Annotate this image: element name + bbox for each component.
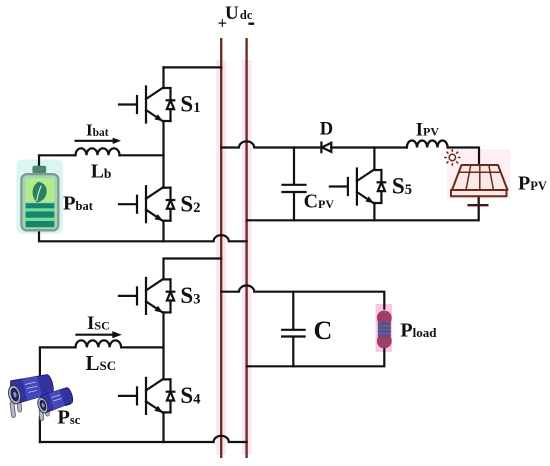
svg-text:+: + — [218, 14, 227, 33]
current arrow Ibat — [76, 140, 115, 142]
wire: load bottom rail — [247, 349, 385, 367]
transistor S1 — [119, 87, 174, 123]
sun symbol — [444, 149, 460, 165]
wire: supercap to inductor Lsc — [40, 347, 76, 376]
wire: S3/S4 leg — [162, 312, 164, 442]
wire: inductor Lb to bridge midpoint — [120, 154, 164, 156]
svg-text:C: C — [314, 316, 333, 345]
svg-text:S2: S2 — [180, 191, 200, 216]
wire: battery bottom to negative bus with hop — [39, 230, 247, 241]
wire: S3 top to positive bus — [164, 259, 222, 280]
inductor Ipv — [407, 141, 448, 148]
wire: S5 leg — [373, 148, 375, 221]
supercapacitor Psc icon — [7, 375, 73, 421]
front capacitor end face — [36, 396, 50, 414]
svg-text:IPV: IPV — [416, 120, 440, 140]
wire: diode to S5 leg to inductor Ipv — [331, 146, 407, 148]
battery icon glow — [17, 160, 64, 235]
wire: inductor Lsc to S3/S4 midpoint — [121, 346, 163, 348]
PV panel Ppv — [451, 165, 508, 196]
rear capacitor body — [10, 375, 53, 404]
svg-text:LSC: LSC — [86, 351, 117, 375]
svg-text:Udc: Udc — [225, 3, 253, 24]
svg-text:Psc: Psc — [57, 406, 80, 428]
wire: battery top to inductor Lb — [39, 155, 76, 166]
svg-text:S3: S3 — [180, 283, 200, 308]
svg-text:Ibat: Ibat — [86, 120, 109, 139]
PV panel mount — [468, 204, 489, 206]
svg-text:CPV: CPV — [304, 191, 335, 213]
wire: supercap leg lower part — [39, 417, 41, 442]
capacitor C — [282, 292, 305, 367]
wire: inductor Ipv to PV panel — [448, 148, 479, 166]
transistor S5 — [330, 169, 385, 205]
capacitor Cpv — [283, 148, 306, 221]
wire: S1 top to positive bus — [164, 66, 222, 68]
rear capacitor end face — [7, 384, 23, 405]
svg-text:Pload: Pload — [400, 320, 437, 342]
svg-text:Pbat: Pbat — [63, 192, 94, 214]
wire: PV bottom rail — [247, 196, 479, 220]
svg-text:ISC: ISC — [87, 313, 110, 334]
front capacitor body — [41, 388, 73, 413]
resistor Pload icon — [377, 311, 392, 349]
current arrow Isc — [76, 334, 116, 336]
transistor S2 — [119, 186, 174, 222]
PV panel glow — [447, 149, 510, 199]
wire: PV top rail from positive bus with hop over negative bus — [221, 141, 319, 147]
wire: supercap bottom to negative bus with hop — [40, 436, 247, 442]
inductor Lb — [76, 148, 120, 155]
load resistor glow — [376, 304, 393, 352]
front capacitor leads — [39, 408, 50, 421]
svg-text:Lb: Lb — [91, 162, 112, 183]
transistor S4 — [119, 378, 174, 414]
battery Pbat icon — [21, 166, 58, 231]
DC bus positive rail — [220, 38, 222, 458]
front capacitor foot — [64, 400, 72, 406]
wire: S1/S2 leg — [162, 67, 164, 241]
rear capacitor leads — [10, 401, 22, 417]
svg-text:D: D — [320, 120, 333, 140]
svg-text:S4: S4 — [180, 383, 200, 408]
transistor S3 — [119, 278, 174, 314]
svg-text:PPV: PPV — [518, 173, 547, 195]
diode D — [320, 143, 322, 153]
svg-text:S1: S1 — [180, 92, 200, 117]
bus pink glow — [221, 60, 246, 455]
DC bus negative rail — [245, 38, 247, 458]
svg-text:S5: S5 — [392, 174, 412, 199]
wire: load top rail from positive bus with hop over negative bus — [221, 286, 384, 309]
label minus — [248, 23, 254, 25]
inductor Lsc — [76, 340, 122, 347]
